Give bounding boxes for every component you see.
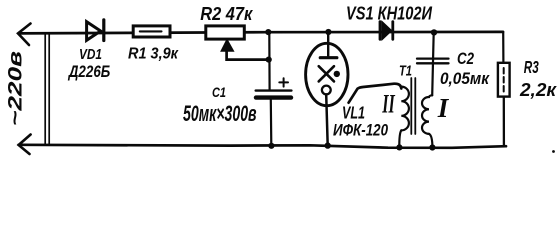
node winding I bottom	[429, 144, 435, 150]
wire top rail	[19, 32, 504, 34]
resistor R1 inner lead line	[140, 30, 162, 32]
svg-text:VS1 КН102И: VS1 КН102И	[346, 2, 433, 23]
svg-text:R2 47к: R2 47к	[200, 3, 253, 24]
resistor R1 body	[133, 26, 170, 37]
node wiper junction	[266, 57, 272, 63]
wire C2 vertical	[432, 32, 434, 95]
transformer core	[411, 78, 415, 134]
node lamp top	[325, 29, 331, 35]
wire bottom rail	[19, 145, 506, 148]
svg-text:50мк×300в: 50мк×300в	[183, 101, 257, 126]
dinistor VS1 cathode bar	[391, 22, 394, 40]
wire C1 lower	[270, 100, 273, 146]
potentiometer R2 body	[206, 26, 245, 39]
wire R3 bottom lead	[503, 97, 505, 147]
svg-text:0,05мк: 0,05мк	[440, 70, 491, 88]
svg-text:Д226Б: Д226Б	[67, 62, 110, 81]
svg-text:II: II	[381, 90, 395, 119]
capacitor C1 negative plate	[256, 95, 291, 99]
node winding II bottom	[396, 144, 402, 150]
speck	[552, 150, 555, 153]
svg-text:~220в: ~220в	[4, 51, 26, 126]
svg-text:C1: C1	[212, 84, 226, 100]
potentiometer R2 wiper arrow	[221, 40, 233, 51]
wire trigger lead	[349, 84, 402, 103]
C1 plus sign	[279, 78, 288, 86]
wire lamp top stem	[327, 32, 329, 56]
resistor R3 body	[498, 63, 510, 97]
wire winding II bottom lead	[399, 130, 401, 147]
node C2 top	[431, 29, 437, 35]
node lamp bottom	[325, 142, 331, 148]
svg-text:C2: C2	[457, 50, 474, 68]
resistor R3 inner lead line	[503, 68, 505, 92]
lamp gas dot	[334, 71, 340, 77]
svg-text:ИФК-120: ИФК-120	[333, 122, 389, 140]
node top rail C1 tap	[265, 29, 271, 35]
mains plug double line	[45, 33, 49, 145]
svg-text:VD1: VD1	[79, 47, 102, 63]
wire lamp bottom stem	[326, 94, 328, 145]
lamp top electrode bar	[320, 56, 337, 59]
transformer T1 winding I	[422, 95, 432, 134]
svg-text:R3: R3	[524, 57, 539, 77]
capacitor C1 positive plate	[256, 89, 292, 91]
diode VD1 triangle	[87, 22, 101, 41]
mains arrow top	[18, 24, 31, 46]
mains arrow bottom	[19, 135, 31, 155]
svg-text:R1 3,9к: R1 3,9к	[128, 46, 179, 63]
wire winding I bottom lead	[429, 134, 432, 148]
dinistor VS1 anode bar	[379, 22, 382, 40]
node C1 bottom	[268, 143, 274, 149]
lamp lower electrode circle	[322, 86, 331, 95]
lamp VL1 bulb	[306, 43, 348, 105]
dinistor VS1 triangle	[382, 22, 391, 39]
diode VD1 cathode bar	[102, 20, 105, 41]
transformer T1 winding II	[401, 87, 409, 131]
wire R2 wiper	[227, 51, 269, 60]
svg-text:2,2к: 2,2к	[519, 80, 557, 100]
svg-text:T1: T1	[399, 63, 412, 80]
wire C1 upper	[268, 33, 271, 90]
svg-text:I: I	[437, 93, 450, 123]
lamp X mark	[319, 66, 334, 81]
wire right drop	[502, 32, 504, 63]
svg-text:VL1: VL1	[342, 103, 365, 123]
capacitor C2 plates	[417, 59, 449, 64]
